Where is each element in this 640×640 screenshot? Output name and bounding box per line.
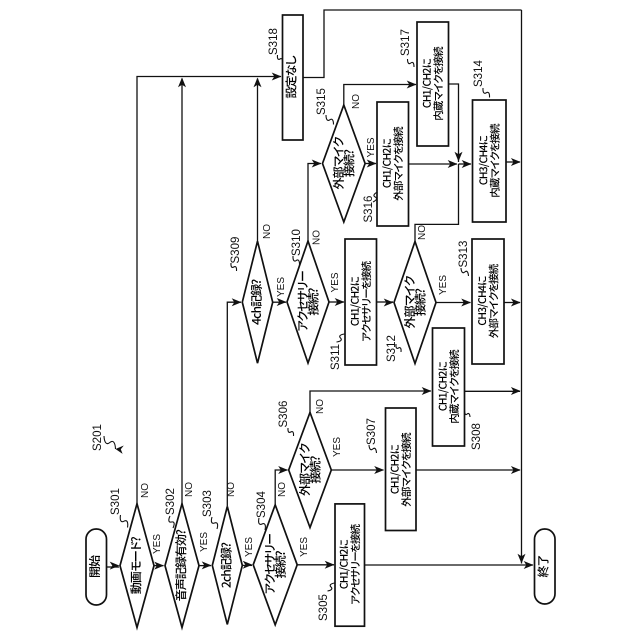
wire: S316 to merge node bbox=[409, 163, 458, 165]
wire: S302 NO join bbox=[181, 79, 183, 504]
svg-text:NO: NO bbox=[262, 224, 273, 239]
wire: S314 to collector bbox=[506, 161, 520, 163]
wire: S315 NO to S317 bbox=[344, 85, 416, 106]
wire: S308 to collector bbox=[465, 390, 520, 392]
svg-text:YES: YES bbox=[244, 537, 255, 557]
svg-text:S302: S302 bbox=[165, 488, 177, 515]
svg-text:S316: S316 bbox=[363, 196, 375, 223]
wire: S303 NO to S309 bbox=[227, 302, 241, 506]
decision S312 (外部マイク接続?) bbox=[394, 242, 436, 364]
svg-text:S301: S301 bbox=[110, 488, 122, 515]
decision S315 (外部マイク接続?) bbox=[323, 105, 366, 222]
svg-text:YES: YES bbox=[438, 275, 449, 295]
process S308 (CH1/CH2に内蔵マイクを接続) bbox=[433, 328, 465, 446]
svg-text:S312: S312 bbox=[386, 335, 398, 362]
svg-text:NO: NO bbox=[417, 225, 428, 240]
decision S302 (音声記録有効?) bbox=[165, 504, 199, 628]
decision S303 (2ch記録?) bbox=[212, 506, 242, 624]
wire: S309 NO join bbox=[257, 79, 259, 242]
svg-text:S307: S307 bbox=[366, 418, 378, 445]
process S311 (CH1/CH2にアクセサリーを接続) bbox=[345, 239, 377, 365]
svg-text:YES: YES bbox=[152, 534, 163, 554]
wire: S306 NO to S308 bbox=[310, 391, 431, 413]
svg-text:S313: S313 bbox=[458, 241, 470, 268]
wire: S303 to S304 bbox=[242, 564, 252, 566]
svg-text:S309: S309 bbox=[230, 237, 242, 264]
svg-text:NO: NO bbox=[184, 482, 195, 497]
svg-text:NO: NO bbox=[140, 483, 151, 498]
process S305 (CH1/CH2にアクセサリーを接続) bbox=[335, 504, 365, 626]
svg-text:S306: S306 bbox=[278, 401, 290, 428]
svg-text:YES: YES bbox=[299, 537, 310, 557]
svg-text:S315: S315 bbox=[316, 88, 328, 115]
start terminal (開始) bbox=[86, 529, 107, 605]
svg-text:NO: NO bbox=[312, 230, 323, 245]
svg-text:S317: S317 bbox=[400, 29, 412, 56]
decision S306 (外部マイク接続?) bbox=[289, 413, 332, 528]
svg-text:YES: YES bbox=[332, 437, 343, 457]
wire: S312 YES to S313 bbox=[436, 302, 471, 304]
wire: S305 to end terminal bbox=[365, 564, 534, 566]
wire: S309 YES to S310 bbox=[273, 301, 286, 303]
process S317 (CH1/CH2に内蔵マイクを接続) bbox=[417, 22, 449, 146]
wire: S313 to collector bbox=[504, 302, 520, 304]
svg-text:S314: S314 bbox=[473, 60, 485, 87]
svg-text:S311: S311 bbox=[330, 344, 342, 370]
svg-text:S303: S303 bbox=[202, 490, 214, 517]
svg-text:S308: S308 bbox=[471, 423, 483, 450]
svg-text:YES: YES bbox=[330, 272, 341, 292]
process S307 (CH1/CH2に外部マイクを接続) bbox=[386, 408, 417, 531]
wire: S311 to S312 bbox=[377, 301, 393, 303]
wire: S318 to right rail bbox=[303, 10, 522, 78]
decision S304 (アクセサリー接続?) bbox=[253, 505, 297, 625]
wire: start to S301 bbox=[107, 566, 120, 568]
svg-text:NO: NO bbox=[277, 482, 288, 497]
svg-text:S305: S305 bbox=[318, 594, 330, 621]
wire: merge node to S314 bbox=[459, 163, 472, 165]
wire: S306 YES to S307 bbox=[331, 469, 383, 471]
end terminal (終了) bbox=[535, 529, 556, 604]
decision S309 (4ch記録?) bbox=[242, 241, 272, 363]
svg-text:S304: S304 bbox=[256, 491, 268, 518]
wire: S301 NO to S318 bbox=[137, 77, 281, 504]
wire: S310 NO to S315 bbox=[308, 164, 321, 242]
svg-text:YES: YES bbox=[366, 137, 377, 157]
process S313 (CH3/CH4に外部マイクを接続) bbox=[472, 239, 504, 364]
wire: S315 YES to S316 bbox=[365, 163, 376, 165]
svg-text:S201: S201 bbox=[92, 424, 104, 451]
process S316 (CH1/CH2に外部マイクを接続) bbox=[377, 102, 409, 226]
wire: collector to main line bbox=[521, 10, 523, 564]
process S314 (CH3/CH4に内蔵マイクを接続) bbox=[473, 100, 507, 222]
wire: S312 NO to merge node bbox=[415, 164, 459, 242]
wire: S304 NO to S306 bbox=[275, 470, 287, 505]
svg-text:S310: S310 bbox=[291, 229, 303, 256]
wire: S304 to S305 bbox=[297, 564, 334, 566]
decision S301 (動画モード?) bbox=[120, 504, 154, 628]
svg-text:YES: YES bbox=[199, 532, 210, 552]
wire: S310 YES to S311 bbox=[329, 301, 344, 303]
svg-text:NO: NO bbox=[315, 399, 326, 414]
decision S310 (アクセサリー接続?) bbox=[287, 241, 329, 363]
wire: S301 to S302 bbox=[154, 565, 164, 567]
process S318 (設定なし) bbox=[283, 15, 304, 140]
svg-text:S318: S318 bbox=[268, 28, 280, 55]
svg-text:YES: YES bbox=[276, 277, 287, 297]
svg-text:NO: NO bbox=[351, 94, 362, 109]
wire: S307 to collector bbox=[416, 469, 520, 471]
wire: S302 to S303 bbox=[199, 565, 211, 567]
wire: S317 to merge node bbox=[449, 84, 459, 162]
